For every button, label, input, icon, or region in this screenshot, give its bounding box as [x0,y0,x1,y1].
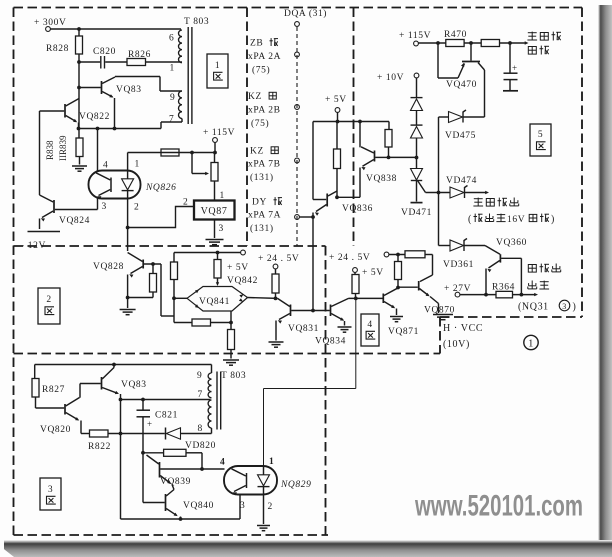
svg-text:+ 10V: + 10V [377,73,404,83]
svg-text:R826: R826 [128,50,151,60]
transistor VQ840 [165,494,167,511]
svg-text:16V: 16V [507,215,525,225]
svg-text:ZB: ZB [250,39,263,49]
zone box 4 [361,314,379,346]
svg-text:VQ841: VQ841 [199,297,230,307]
svg-text:VQ828: VQ828 [93,262,124,272]
svg-text:xPA 2A: xPA 2A [248,52,281,62]
svg-text:): ) [551,214,555,225]
circled 1 mark [524,335,538,349]
transistor VQ871 [382,294,384,304]
svg-text:www.520101.com: www.520101.com [414,490,583,523]
ground below resistor zone2 [223,359,239,361]
optocoupler NQ826 [89,171,141,199]
wire diode link [416,111,418,125]
svg-text:R838: R838 [45,140,55,160]
wire emitter rail zone3 [121,518,241,520]
svg-text:VQ820: VQ820 [40,425,71,435]
wire top rail zone5 [313,121,389,123]
svg-text:VQ836: VQ836 [342,204,373,214]
wire to line-output feed arrow [500,42,527,44]
wire 115V feed line [128,152,215,154]
ground below VQ871 [390,316,403,318]
dashed border bottom of zone 4 right part [440,316,582,318]
wire NQ829 pin3 riser [239,495,241,520]
wire node to C820 [79,61,100,63]
resistor on 115V feed [161,149,179,156]
svg-text:VQ838: VQ838 [366,174,397,184]
svg-text:KZ: KZ [248,92,262,102]
wire NQ829 pin2 to ground [263,495,265,525]
wire VQ836 collector node [337,196,360,198]
transistor VQ83 zone3 [101,377,103,390]
terminal xPA7A and stub wire [295,215,300,220]
svg-text:VQ842: VQ842 [227,276,258,286]
wire R826 to T803 pin 1 [146,61,183,63]
wire +5V rail zone2 [174,252,241,254]
schematic outer dashed border bottom [14,534,329,536]
wire sampling bus vertical [438,117,440,246]
wire NQ826 pin3 to VQ824 [97,199,99,210]
dashed border step of zone 4 [439,317,441,354]
svg-text:VD471: VD471 [401,208,432,218]
svg-text:1: 1 [135,160,140,170]
resistor VQ836 load [336,122,338,150]
resistor R822 [81,433,90,435]
transistor VQ824 [53,200,55,213]
svg-text:1: 1 [215,61,220,71]
transistor VQ870 [418,281,420,291]
wire zone5 left branch [312,122,314,200]
wire resistor to NQ829 pin4 row [201,453,203,469]
diode VD820 [165,428,167,440]
svg-text:VQ83: VQ83 [121,380,147,390]
svg-text:- 12V: - 12V [21,241,46,251]
svg-text:VQ839: VQ839 [160,477,191,487]
wire VQ470 base feedback [437,43,439,78]
diode VD473 [411,127,423,139]
ground below R839 [72,165,87,167]
svg-text:xPA 2B: xPA 2B [248,106,281,116]
svg-text:H · VCC: H · VCC [443,323,483,334]
dual transistor VQ841 hexagon [187,287,248,312]
svg-text:VQ822: VQ822 [79,112,110,122]
wire VQ834 collector to VQ871 base [349,297,383,299]
terminal and resistor feed zone4 [384,252,389,257]
resistor VQ841 feedback [174,322,192,324]
schematic outer dashed border left [13,8,15,536]
svg-text:+: + [512,63,518,73]
svg-text:+ 115V: + 115V [203,128,235,138]
svg-text:VQ834: VQ834 [315,337,346,347]
wire hexagon bottom right to node [230,311,232,323]
terminal xPA2A [295,52,300,57]
transistor VQ470 [462,61,480,63]
transistor VQ83 zone1 [101,81,103,94]
potentiometer [214,153,216,163]
capacitor C821 [142,400,144,410]
label R839 rotated [58,135,68,161]
svg-text:VQ87: VQ87 [201,206,228,217]
svg-text:VD361: VD361 [443,260,474,270]
svg-text:6: 6 [169,34,174,44]
svg-text:7: 7 [169,115,174,125]
wire top rail zone3 [35,364,212,366]
label field output supply [528,265,536,273]
svg-text:VQ871: VQ871 [388,327,419,337]
svg-text:VD820: VD820 [185,441,216,451]
label R838 rotated [45,140,55,160]
svg-text:3: 3 [562,302,567,311]
terminal +5V zone4 [353,268,358,273]
svg-text:1: 1 [220,191,225,201]
diode VD474 [450,187,464,198]
wire NQ826 pin1 riser [127,153,129,171]
svg-text:5: 5 [538,130,543,140]
svg-text:+ 24 . 5V: + 24 . 5V [329,253,370,263]
terminal xPA7B [295,158,300,163]
diode VD475 [439,116,449,118]
ground below VQ870 [433,314,453,316]
rail -12V [28,231,61,233]
transistor VQ839 [159,462,161,478]
svg-text:7: 7 [198,390,203,400]
resistor R827 [34,365,36,379]
wire VQ828 base branch [160,264,162,316]
svg-text:+ 115V: + 115V [399,31,431,41]
svg-text:(10V): (10V) [443,339,470,350]
svg-text:1: 1 [528,339,534,350]
svg-text:T 803: T 803 [184,17,209,27]
resistor R470 [446,40,464,47]
transistor VQ360 [499,254,501,262]
wire R470 to R471 [464,42,481,44]
svg-text:1: 1 [269,457,274,467]
transistor VQ838 [374,151,376,162]
dashed divider left of zone 4 / right of zones 2-3 [325,246,327,535]
svg-text:(NQ31: (NQ31 [518,302,549,313]
wire NQ826 pin2 drop [127,199,129,252]
svg-text:(: ( [468,214,472,225]
terminal +5V zone2 [241,250,246,255]
transistor VQ820 [64,404,66,415]
svg-text:): ) [573,302,577,313]
zone box 5 [530,124,551,156]
transistor VQ831 [290,305,292,317]
wire emitter rail zone1 [79,128,162,130]
svg-text:R828: R828 [46,44,69,54]
resistor R838 / R839 [78,129,80,139]
ground below VQ828 [127,298,129,309]
svg-text:+ 5V: + 5V [325,95,347,105]
svg-text:VQ840: VQ840 [183,501,214,511]
transistor VQ834 [330,305,332,317]
wire T803 pin7 link [160,122,162,129]
svg-text:IIR839: IIR839 [58,135,68,161]
svg-text:1: 1 [170,64,175,74]
wire NQ826 pin4 riser [97,129,99,171]
ground below VQ831 [269,341,284,343]
svg-text:+ 300V: + 300V [34,18,66,28]
dashed divider right of zone 1 [246,8,248,247]
svg-text:T 803: T 803 [221,371,246,381]
diode VD472 [411,99,423,111]
svg-text:+: + [147,419,153,429]
wire VQ870 base [398,286,418,288]
wire VQ841 to VQ831 collector [248,297,278,300]
label high voltage limit [473,198,483,206]
resistor to ground zone2 [228,330,235,350]
svg-text:9: 9 [170,93,175,103]
wire VQ820 collector to VQ83 base [80,383,101,385]
svg-text:xPA 7B: xPA 7B [248,160,281,170]
dashed divider between zone 1 and zone 2 [14,245,326,247]
wire R827 to VQ820 base [36,407,65,409]
wire 300V rail [50,28,181,30]
transistor VQ842 current source [217,253,219,260]
svg-text:VD475: VD475 [445,131,476,141]
capacitor C820 [100,56,102,69]
bus line DQA dashed [296,27,298,246]
dashed divider between zone 2 and zone 3 [14,353,441,355]
ground below NQ829 [257,525,270,527]
wire to VQ841 left vertex [174,297,187,299]
schematic outer dashed border right [581,8,583,318]
svg-text:(131): (131) [250,223,274,234]
transistor VQ822 [64,104,66,118]
resistor R828 [78,29,80,36]
terminal xPA2B [295,105,300,110]
wire 115V to R470 [418,42,445,44]
wire R364 to arrow [513,294,536,296]
regulator VQ87 [214,181,216,201]
terminal DQA [295,22,300,27]
resistor VQ839 feed [143,452,164,454]
schematic outer dashed border top [14,7,583,9]
svg-text:C820: C820 [93,47,116,57]
svg-text:NQ829: NQ829 [280,480,311,490]
zone box 3 [40,478,61,510]
wire VQ831 VQ834 base link [291,310,330,312]
svg-text:DQA (31): DQA (31) [284,8,327,19]
svg-text:4: 4 [220,458,225,468]
resistor VQ841 left load [173,253,175,263]
wire VD471 to VD474 branch [418,181,426,193]
resistor VQ871 load [396,286,400,290]
wire base chain vertical [78,62,80,129]
svg-text:DY: DY [252,198,267,208]
svg-text:3: 3 [240,501,245,511]
svg-text:R470: R470 [444,30,467,40]
capacitor C471 electrolytic [509,43,511,73]
svg-text:R364: R364 [492,283,515,293]
wire VQ870 collector [432,255,434,276]
wire C821 branch down [142,434,144,503]
svg-text:VQ470: VQ470 [446,80,477,90]
diode VD471 [411,169,423,181]
svg-text:VQ360: VQ360 [496,238,527,248]
wire T803 pin7 tap [121,399,211,401]
svg-text:2: 2 [268,502,273,512]
svg-text:+ 5V: + 5V [227,263,249,273]
scan shadow right edge [598,5,612,542]
svg-text:R822: R822 [88,442,111,452]
wire diode chain to VD471 [416,138,418,168]
svg-text:(75): (75) [251,118,269,129]
resistor VQ831 load [272,274,279,293]
zone box 2 [38,288,60,324]
svg-text:(131): (131) [250,172,274,183]
wire R828 to C820 node [78,54,80,62]
svg-text:4: 4 [103,161,108,171]
svg-text:C821: C821 [155,411,178,421]
scan shadow bottom edge [4,540,612,557]
transistor VQ836 [326,194,328,207]
resistor R826 [105,61,127,63]
svg-text:9: 9 [197,371,202,381]
svg-text:(75): (75) [252,65,270,76]
dashed divider left of zone 5 [353,8,355,247]
resistor VQ828 base [151,262,155,266]
wire VQ838 base to diode chain [389,156,417,158]
svg-text:3: 3 [219,224,224,234]
svg-text:2: 2 [134,203,139,213]
wire VQ828 emitter to resistor bottom [128,297,153,299]
svg-text:4: 4 [367,320,372,330]
diode VD361 [439,245,451,247]
svg-text:R827: R827 [42,385,65,395]
optocoupler NQ829 [224,466,277,495]
ground below VQ834 [338,326,352,328]
wire down to NQ829 pin1 [355,298,357,388]
svg-text:VQ831: VQ831 [288,324,319,334]
transistor VQ828 [142,260,144,269]
svg-text:KZ: KZ [250,147,264,157]
svg-text:+ 5V: + 5V [362,268,384,278]
resistor R364 [460,294,496,296]
resistor VQ834 collector load [352,275,359,294]
svg-text:+ 24 . 5V: + 24 . 5V [258,254,299,264]
wire VQ822 base to VQ824 collector [39,111,41,195]
svg-text:3: 3 [48,485,53,495]
svg-text:xPA 7A: xPA 7A [248,211,281,221]
wire VD361 to VQ360 base [464,245,485,247]
resistor VQ838 load [388,122,390,130]
svg-text:3: 3 [102,202,107,212]
series resistor after R470 [481,40,499,47]
svg-text:8: 8 [198,424,203,434]
svg-text:VQ83: VQ83 [116,85,142,95]
svg-text:NQ826: NQ826 [145,183,176,193]
svg-text:VD474: VD474 [446,176,477,186]
zone box 1 [207,54,228,88]
label line output supply [527,32,537,40]
svg-text:VQ824: VQ824 [59,216,90,226]
svg-text:2: 2 [46,295,51,305]
